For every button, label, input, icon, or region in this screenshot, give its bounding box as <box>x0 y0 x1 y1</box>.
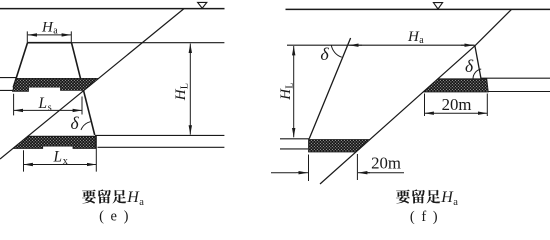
caption (e): yao liu zu Ha <box>82 189 126 203</box>
excavation slope line (e) <box>0 9 184 159</box>
HL label (f), rotated <box>278 82 296 100</box>
20m lower left arrow pointing right (f) <box>296 172 308 174</box>
HL vertical dimension (e) <box>189 44 191 135</box>
svg-text:( f ): ( f ) <box>410 209 439 225</box>
20m upper dimension line (f) <box>425 112 488 114</box>
svg-text:a: a <box>139 197 144 208</box>
svg-text:L: L <box>38 95 48 112</box>
svg-text:x: x <box>63 156 68 167</box>
Ha right arrow on line (f) <box>461 44 474 46</box>
svg-text:a: a <box>419 35 424 46</box>
Ha left arrow on line (f) <box>349 44 362 46</box>
Lx dimension extension lines (e) <box>24 136 97 172</box>
Ls dimension extension lines (e) <box>14 94 82 116</box>
dam downstream slope right side (e) <box>72 43 95 135</box>
caption (f): yao liu zu Ha <box>396 189 440 203</box>
svg-text:H: H <box>126 189 140 206</box>
dam crest trapezoid top edge (e) <box>28 42 72 44</box>
svg-text:H: H <box>173 88 189 101</box>
Lx dimension line (e) <box>24 164 97 166</box>
HL label (e), rotated <box>173 83 191 101</box>
svg-text:H: H <box>278 88 294 101</box>
svg-text:H: H <box>41 20 54 36</box>
lower hatched strip (f) <box>309 140 370 153</box>
main excavation slope line (f) <box>320 9 512 184</box>
dam upstream slope left side (e) <box>13 43 27 88</box>
HL vertical dimension (f) <box>293 46 295 137</box>
20m lower right arrow pointing left (f) <box>358 172 370 174</box>
left diagram (e): reservoir water surface line <box>0 8 225 10</box>
upper hatched strip: silt layer in dam (e) <box>13 78 99 91</box>
right diagram (f): reservoir water surface line <box>286 8 550 10</box>
svg-text:δ: δ <box>320 44 329 64</box>
20m upper dimension extension lines (f) <box>425 94 488 117</box>
delta arc left (f) <box>331 45 342 57</box>
upper hatched strip (f) <box>423 79 488 92</box>
svg-text:δ: δ <box>465 56 474 76</box>
bench level line at dam crest (e) <box>72 42 225 44</box>
svg-text:20m: 20m <box>442 95 472 114</box>
Ha dimension line with arrows (e) <box>28 34 71 36</box>
svg-text:L: L <box>285 82 296 88</box>
ground line stubs left of dam (e) <box>0 78 17 91</box>
svg-text:( e ): ( e ) <box>99 209 130 225</box>
delta angle arc (e) <box>81 122 90 130</box>
right bank face line (f) <box>475 46 484 92</box>
svg-text:s: s <box>48 102 52 113</box>
lower water line doubling as Ha dimension line (f) <box>287 44 475 46</box>
lowland ground lines (f) <box>280 139 309 149</box>
Ha dimension extension lines (e) <box>27 31 71 42</box>
svg-text:H: H <box>440 189 454 206</box>
water level symbol (nabla) right <box>433 3 442 9</box>
Ls dimension line (e) <box>14 109 82 111</box>
20m lower dimension extension lines (f) <box>309 154 358 181</box>
20m lower dimension line left tail (f) <box>271 172 296 174</box>
water level symbol (nabla) left <box>198 2 207 8</box>
20m lower dimension line right tail (f) <box>367 172 404 174</box>
svg-text:L: L <box>180 83 191 89</box>
svg-text:20m: 20m <box>371 154 401 173</box>
delta arc right (f) <box>473 69 481 79</box>
svg-text:a: a <box>453 197 458 208</box>
left cut slope line (f) <box>309 38 350 139</box>
lower bench surface lines (e) <box>95 135 224 147</box>
bench surface lines right of upper strip (f) <box>481 78 550 91</box>
svg-text:δ: δ <box>71 113 80 133</box>
lower hatched strip: toe platform (e) <box>13 136 96 148</box>
svg-text:a: a <box>53 26 58 37</box>
svg-text:H: H <box>407 29 420 45</box>
svg-text:L: L <box>53 149 63 166</box>
